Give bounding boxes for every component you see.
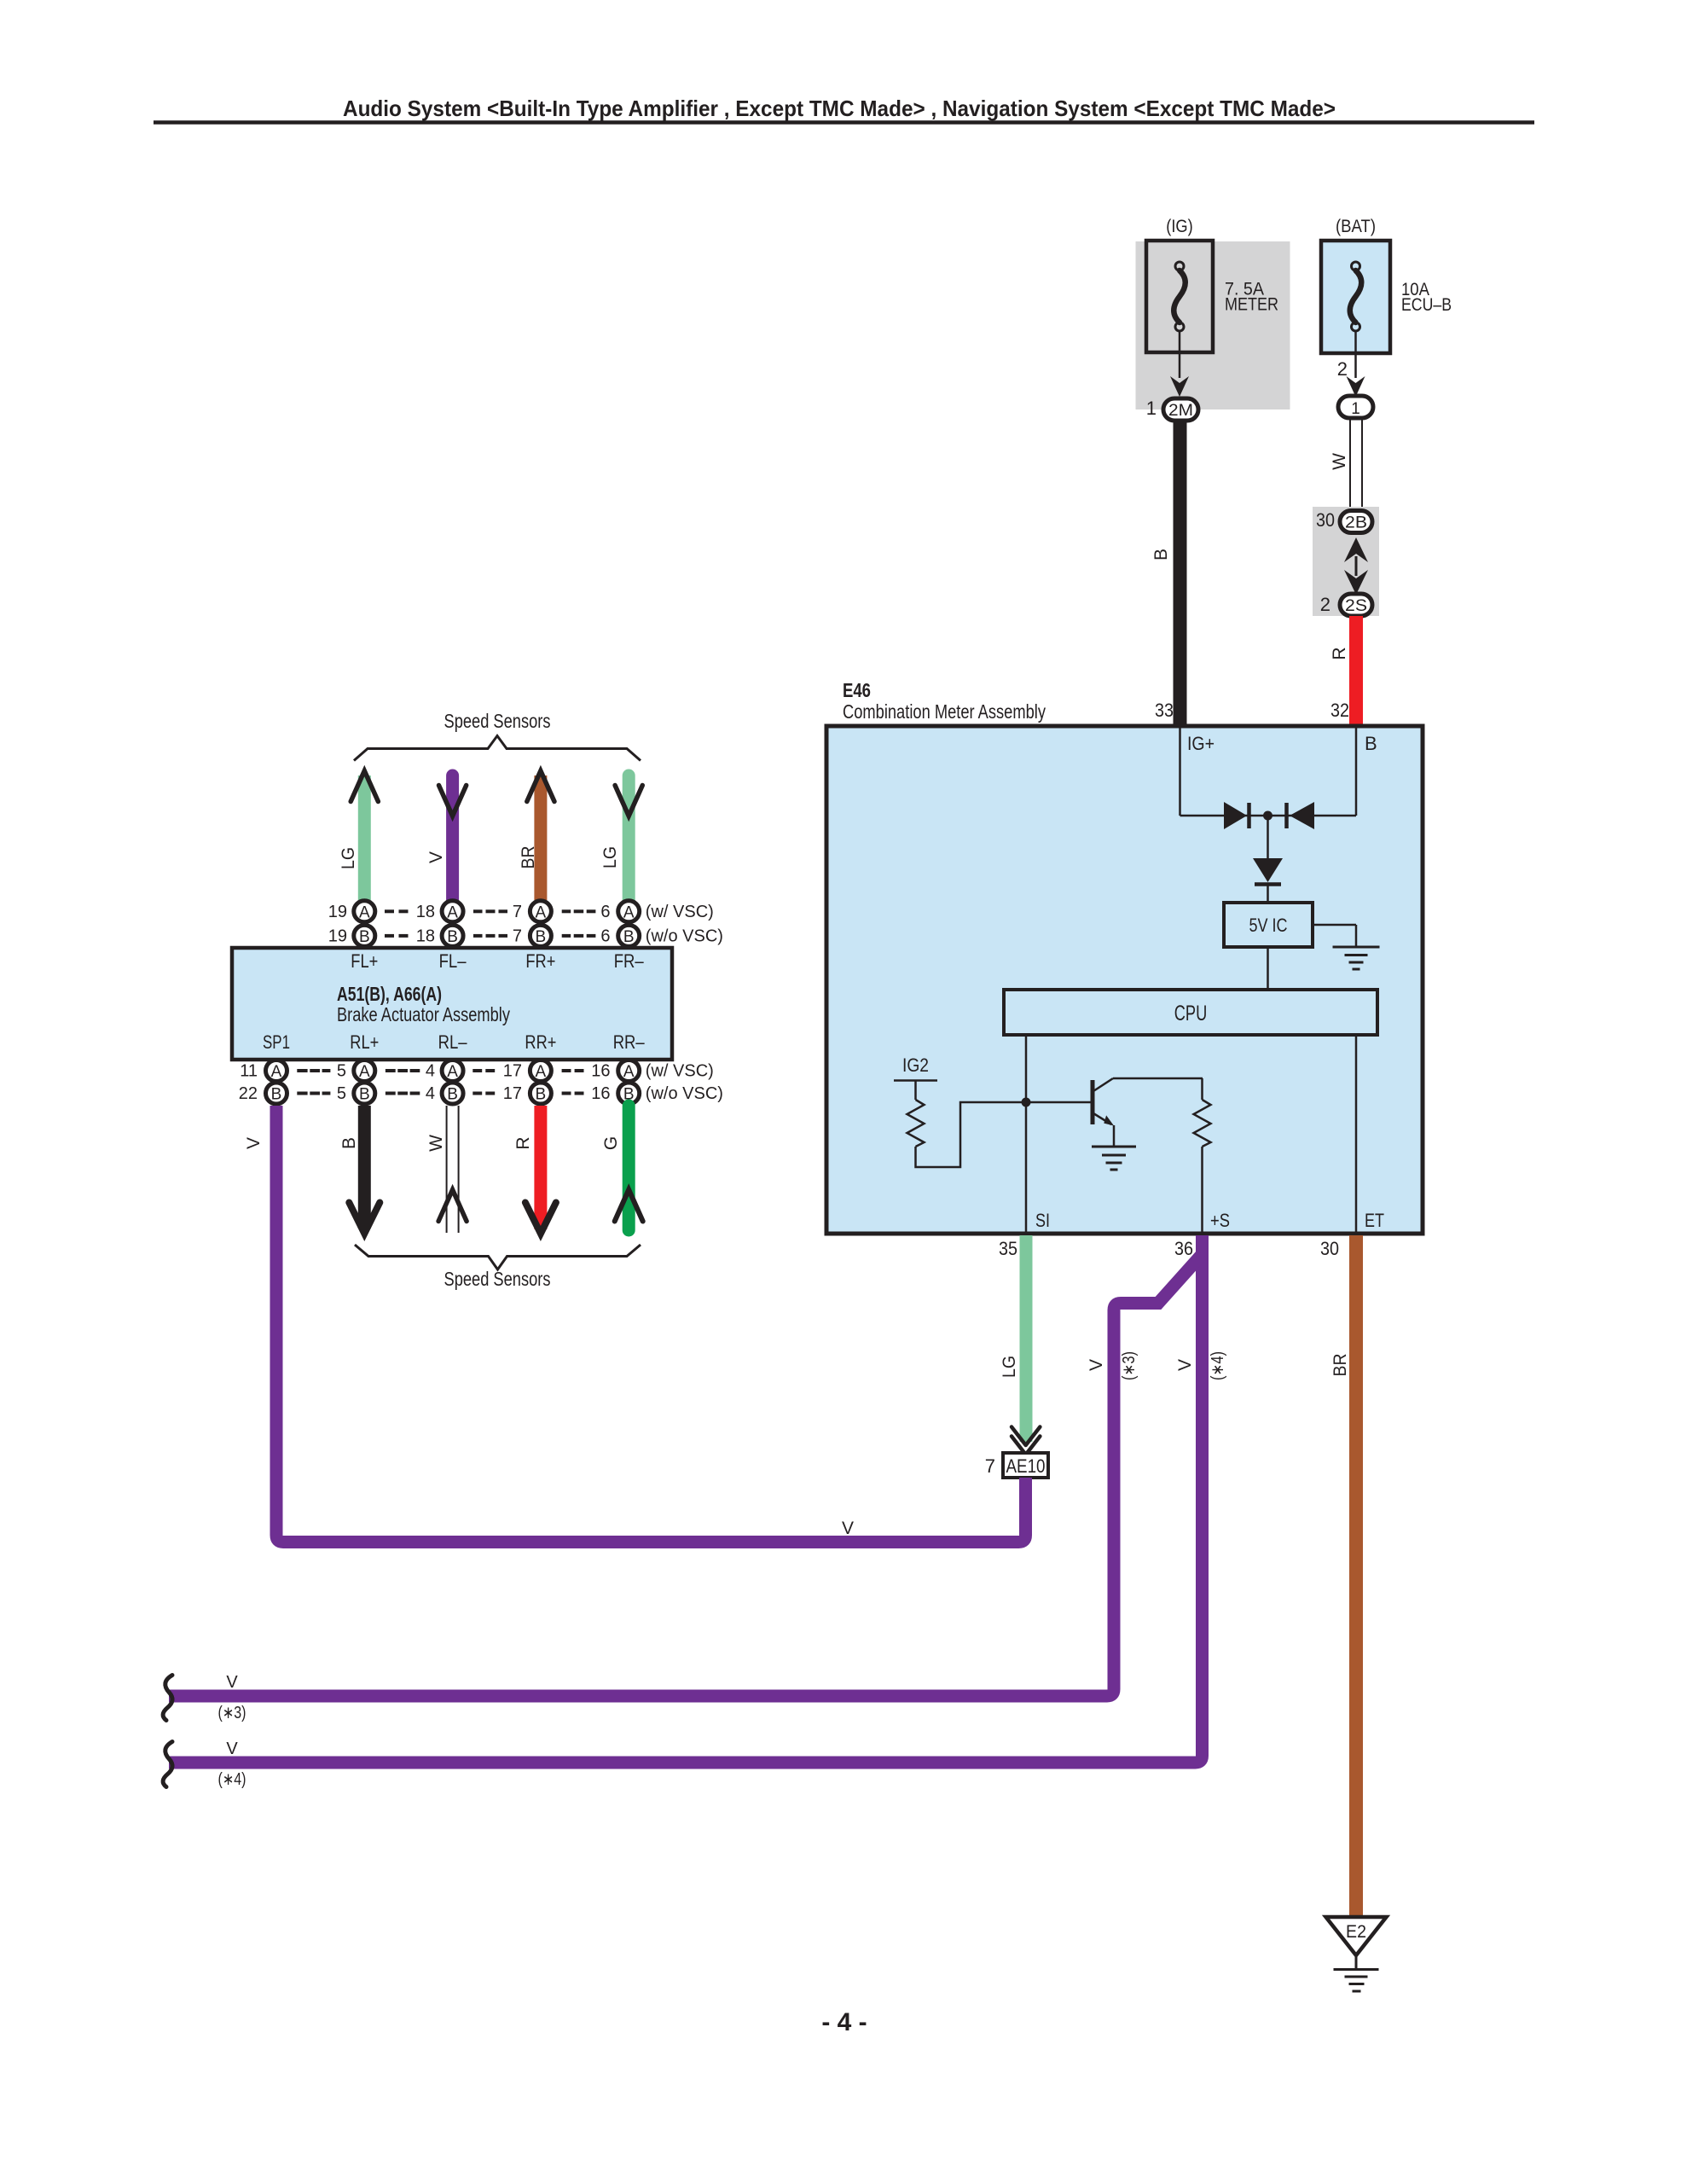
svg-text:2S: 2S	[1345, 597, 1367, 615]
svg-text:16: 16	[591, 1062, 610, 1081]
svg-text:5V IC: 5V IC	[1249, 915, 1288, 936]
svg-text:5: 5	[337, 1084, 346, 1103]
wire junction to D3	[1267, 816, 1269, 858]
svg-text:4: 4	[426, 1062, 435, 1081]
svg-text:V: V	[226, 1740, 238, 1758]
svg-text:E46: E46	[843, 679, 871, 701]
svg-text:BR: BR	[519, 846, 538, 869]
svg-text:V: V	[842, 1519, 854, 1538]
svg-text:RL+: RL+	[350, 1031, 379, 1053]
svg-text:LG: LG	[1000, 1356, 1019, 1378]
svg-text:35: 35	[999, 1238, 1017, 1259]
svg-text:(w/o VSC): (w/o VSC)	[646, 1084, 723, 1103]
svg-text:17: 17	[503, 1062, 522, 1081]
svg-text:7: 7	[513, 926, 522, 945]
connector 2B	[1340, 511, 1372, 533]
diode D3 (series to 5V IC)	[1253, 858, 1283, 885]
wire diode row	[1180, 815, 1357, 817]
sensor wire FL- (V, arrow down)	[426, 775, 467, 901]
svg-text:SI: SI	[1035, 1210, 1050, 1231]
wire B (black) from 2M to E46 pin 33	[1151, 421, 1180, 726]
svg-text:W: W	[426, 1135, 446, 1152]
svg-text:B: B	[359, 1086, 370, 1104]
resistor R1 (IG2 pull-up)	[907, 1100, 925, 1147]
svg-text:ET: ET	[1365, 1210, 1384, 1231]
transistor Q1	[1093, 1078, 1203, 1147]
brace top (speed sensors)	[354, 736, 641, 761]
wire V (*3) branch from +S	[169, 1254, 1203, 1696]
ground E2	[1326, 1917, 1387, 1991]
svg-text:V: V	[226, 1673, 238, 1692]
break squiggle wire (*3)	[163, 1673, 246, 1722]
wire LG from SI to AE10	[1000, 1235, 1026, 1442]
svg-text:18: 18	[416, 926, 435, 945]
svg-text:RL–: RL–	[438, 1031, 468, 1053]
svg-text:1: 1	[1351, 400, 1360, 418]
svg-text:CPU: CPU	[1174, 1002, 1208, 1025]
svg-text:LG: LG	[600, 846, 620, 868]
resistor R2 (+S pull resistor)	[1194, 1078, 1211, 1234]
svg-text:A: A	[623, 1063, 635, 1081]
wire BR from ET to E2	[1330, 1235, 1356, 1916]
wire V (*4) from +S down and left	[169, 1235, 1227, 1763]
svg-text:(∗4): (∗4)	[218, 1770, 246, 1789]
svg-text:B: B	[536, 1086, 547, 1104]
svg-text:SP1: SP1	[263, 1031, 290, 1053]
svg-text:(∗4): (∗4)	[1209, 1351, 1227, 1380]
svg-text:B: B	[339, 1137, 359, 1149]
svg-text:BR: BR	[1330, 1354, 1350, 1377]
fuse F2 10A ECU-B (BAT)	[1321, 217, 1452, 353]
svg-text:17: 17	[503, 1084, 522, 1103]
wire R (red) from 2S to E46 pin 32	[1330, 616, 1356, 726]
svg-text:(∗3): (∗3)	[1120, 1351, 1139, 1380]
svg-text:B: B	[359, 928, 370, 946]
svg-text:Speed Sensors: Speed Sensors	[444, 1268, 551, 1290]
sensor wire FR+ (BR, arrow up)	[519, 771, 554, 901]
connector row B (top, w/o VSC)	[328, 925, 723, 946]
svg-text:B: B	[1151, 549, 1171, 561]
svg-text:30: 30	[1320, 1238, 1339, 1259]
svg-text:19: 19	[328, 926, 347, 945]
sensor wire FR- (LG, arrow down)	[600, 775, 642, 901]
svg-text:FL+: FL+	[351, 950, 378, 972]
svg-text:Brake Actuator Assembly: Brake Actuator Assembly	[337, 1003, 510, 1025]
A51/A66 Brake Actuator Assembly box	[232, 948, 672, 1060]
svg-text:IG2: IG2	[902, 1054, 929, 1076]
svg-text:6: 6	[600, 903, 610, 921]
svg-text:36: 36	[1174, 1238, 1193, 1259]
svg-text:A: A	[447, 1063, 458, 1081]
wire R1 to base node	[916, 1102, 1092, 1167]
svg-text:B: B	[1365, 733, 1377, 754]
wire CPU to SI node	[1025, 1035, 1028, 1234]
svg-text:30: 30	[1316, 509, 1335, 531]
svg-text:V: V	[1175, 1359, 1195, 1371]
title: Audio System / Navigation System header	[154, 96, 1534, 123]
svg-text:A: A	[359, 903, 370, 921]
connector 1	[1338, 396, 1373, 418]
wire from fuse to connector 1 with arrow	[1347, 331, 1365, 397]
svg-text:ECU–B: ECU–B	[1401, 295, 1452, 315]
svg-text:V: V	[244, 1137, 264, 1149]
svg-text:W: W	[1330, 453, 1349, 470]
svg-text:E2: E2	[1346, 1922, 1366, 1942]
connector row A (bottom, w/ VSC)	[240, 1060, 714, 1082]
svg-text:V: V	[1087, 1359, 1106, 1371]
sensor wire FL+ (LG, arrow up)	[339, 771, 378, 901]
svg-text:IG+: IG+	[1187, 733, 1215, 754]
svg-text:A51(B), A66(A): A51(B), A66(A)	[337, 983, 442, 1005]
svg-text:2: 2	[1337, 358, 1348, 380]
CPU block	[1004, 990, 1377, 1035]
svg-text:16: 16	[591, 1084, 610, 1103]
svg-text:- 4 -: - 4 -	[821, 2008, 867, 2036]
node base junction dot	[1022, 1098, 1031, 1107]
svg-text:5: 5	[337, 1062, 346, 1081]
svg-text:(BAT): (BAT)	[1336, 217, 1376, 236]
svg-text:A: A	[359, 1063, 370, 1081]
E46 Combination Meter Assembly box	[826, 679, 1423, 1234]
svg-text:A: A	[536, 903, 547, 921]
diode D1 (from IG+)	[1224, 802, 1249, 829]
connector row A (top, w/ VSC)	[328, 901, 714, 922]
wire 5V IC to CPU	[1267, 947, 1269, 990]
break squiggle wire (*4)	[163, 1740, 246, 1789]
wire CPU to ET	[1355, 1035, 1358, 1234]
gray background block (2B/2S junction)	[1313, 507, 1379, 616]
svg-text:LG: LG	[339, 847, 358, 869]
svg-text:(w/ VSC): (w/ VSC)	[646, 903, 714, 921]
gray background block (IG fuse / 2M connector)	[1136, 241, 1290, 409]
junction arrows between 2B and 2S	[1344, 537, 1368, 595]
wire V from AE10 to SP1	[244, 1106, 1026, 1542]
connector 2M	[1163, 398, 1198, 421]
svg-text:Combination Meter Assembly: Combination Meter Assembly	[843, 700, 1046, 723]
sensor wire RL+ (B, arrow down)	[339, 1106, 380, 1234]
connector AE10	[1003, 1453, 1048, 1478]
svg-text:11: 11	[240, 1062, 258, 1081]
svg-text:7: 7	[985, 1455, 995, 1477]
svg-text:33: 33	[1155, 700, 1174, 721]
connector 2S	[1340, 594, 1372, 616]
svg-text:B: B	[536, 928, 547, 946]
ground (5V IC)	[1333, 947, 1380, 969]
svg-text:V: V	[426, 851, 446, 863]
svg-text:(∗3): (∗3)	[218, 1704, 246, 1722]
svg-text:G: G	[601, 1136, 621, 1150]
regulator 5V IC	[1224, 903, 1313, 947]
sensor wire RR+ (R, arrow down)	[513, 1106, 556, 1234]
svg-text:(w/ VSC): (w/ VSC)	[646, 1062, 714, 1081]
svg-text:22: 22	[239, 1084, 258, 1103]
svg-text:(w/o VSC): (w/o VSC)	[646, 926, 723, 945]
sensor wire RR- (G, arrow up)	[601, 1106, 643, 1230]
wire from fuse to 2M with arrow	[1170, 331, 1189, 397]
connector row B (bottom, w/o VSC)	[239, 1083, 723, 1104]
wire 5V IC to ground	[1313, 925, 1356, 947]
svg-text:(IG): (IG)	[1166, 217, 1193, 236]
diode D2 (from B)	[1287, 802, 1315, 829]
ground (emitter)	[1092, 1147, 1136, 1170]
wire D3 to 5V IC	[1267, 886, 1269, 903]
brace bottom (speed sensors)	[355, 1245, 641, 1269]
svg-text:4: 4	[426, 1084, 435, 1103]
svg-text:METER: METER	[1225, 295, 1278, 315]
svg-text:19: 19	[328, 903, 347, 921]
svg-text:32: 32	[1330, 700, 1349, 721]
svg-text:2: 2	[1320, 594, 1330, 615]
svg-text:AE10: AE10	[1006, 1455, 1046, 1477]
svg-text:FR–: FR–	[614, 950, 645, 972]
svg-text:R: R	[513, 1136, 533, 1149]
svg-text:A: A	[536, 1063, 547, 1081]
svg-text:R: R	[1330, 647, 1349, 659]
sensor wire RL- (W, arrow up)	[426, 1106, 467, 1233]
svg-text:A: A	[623, 903, 635, 921]
net IG2 terminal	[894, 1054, 937, 1100]
node junction dot	[1263, 811, 1272, 821]
svg-text:RR+: RR+	[525, 1031, 556, 1053]
svg-text:Audio System <Built-In Type Am: Audio System <Built-In Type Amplifier , …	[343, 96, 1336, 121]
svg-text:2M: 2M	[1168, 402, 1193, 420]
svg-text:A: A	[447, 903, 458, 921]
wire IG+ internal	[1179, 728, 1181, 816]
fuse F1 7.5A METER (IG)	[1146, 217, 1278, 352]
svg-text:1: 1	[1146, 398, 1157, 419]
wire B internal	[1355, 728, 1358, 816]
svg-text:B: B	[447, 928, 458, 946]
svg-text:+S: +S	[1210, 1210, 1230, 1231]
svg-text:B: B	[447, 1086, 458, 1104]
svg-text:FL–: FL–	[439, 950, 467, 972]
wire W (white) from connector 1 to 2B	[1330, 418, 1362, 511]
svg-text:A: A	[271, 1063, 282, 1081]
svg-text:6: 6	[600, 926, 610, 945]
svg-text:RR–: RR–	[613, 1031, 646, 1053]
svg-text:Speed Sensors: Speed Sensors	[444, 710, 551, 732]
svg-text:FR+: FR+	[525, 950, 555, 972]
svg-text:18: 18	[416, 903, 435, 921]
double chevron into AE10	[1012, 1427, 1040, 1455]
svg-text:B: B	[271, 1086, 282, 1104]
svg-text:B: B	[623, 928, 635, 946]
svg-text:7: 7	[513, 903, 522, 921]
svg-text:2B: 2B	[1345, 514, 1367, 532]
